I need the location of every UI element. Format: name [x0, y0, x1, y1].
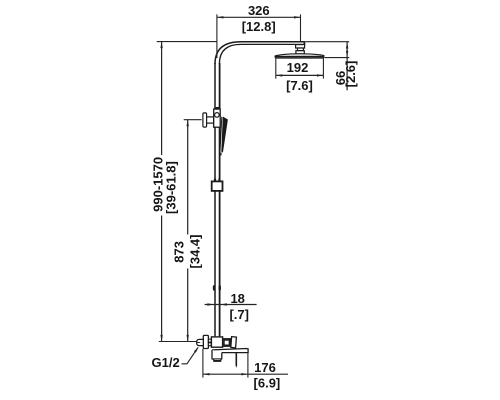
- dim 176 ext left: [202, 349, 204, 378]
- dim 873 line: [187, 120, 189, 235]
- svg-text:G1/2: G1/2: [152, 355, 180, 370]
- head connector stem: [298, 48, 304, 51]
- dim 66 line: [346, 42, 348, 91]
- dim 990-1570 arrow down: [160, 335, 162, 342]
- dim 18 arrow left: [207, 303, 214, 305]
- spout foot dark band: [214, 360, 221, 362]
- spout foot: [214, 359, 221, 361]
- head connector flange 2: [296, 51, 304, 54]
- dim 873 arrow down: [187, 335, 189, 342]
- rain shower spray face line: [276, 57, 324, 59]
- G1/2 leader arrow: [194, 347, 199, 353]
- handle stick tip: [236, 365, 238, 368]
- hand shower left outline: [220, 117, 222, 151]
- svg-text:[12.8]: [12.8]: [242, 19, 276, 34]
- svg-text:[39-61.8]: [39-61.8]: [163, 161, 178, 214]
- arm end cap: [304, 41, 306, 45]
- dim 66 ext bottom: [325, 57, 350, 59]
- riser pipe left wall: [214, 63, 216, 336]
- dim 990-1570 line: [161, 42, 163, 155]
- svg-text:176: 176: [254, 360, 276, 375]
- dim 18 arrow right: [220, 303, 227, 305]
- rain shower head bottom rim: [275, 56, 325, 58]
- pipe coupling chamfer left: [214, 179, 216, 182]
- svg-text:[34.4]: [34.4]: [187, 235, 202, 269]
- dim 990-1570 ext top: [157, 41, 217, 43]
- pipe bend inner: [219, 44, 241, 64]
- dim 326 arrow left: [217, 16, 224, 18]
- dimension 192 line: [276, 74, 324, 76]
- pipe coupling box: [212, 181, 223, 191]
- supply tab lower: [208, 343, 211, 346]
- head connector flange 1: [296, 45, 305, 48]
- dim 326 ext right: [300, 14, 302, 41]
- pipe coupling chamfer right: [218, 179, 220, 182]
- holder pin dark top: [215, 107, 219, 110]
- dimension 326 line: [217, 16, 301, 18]
- dim 192 arrow left: [276, 74, 283, 76]
- G1/2 leader: [182, 347, 199, 363]
- dim 66 arrow up: [346, 42, 348, 49]
- pipe lug right: [219, 285, 221, 290]
- cartridge housing: [223, 339, 231, 347]
- dim 176 arrow left: [203, 373, 210, 375]
- slider knob stem: [207, 117, 214, 123]
- slider knob flange: [203, 113, 207, 127]
- svg-text:[6.9]: [6.9]: [254, 375, 281, 390]
- dim 176 arrow right: [241, 373, 248, 375]
- dim 990-1570 bottom ext: [159, 341, 196, 343]
- shower arm bottom: [241, 43, 304, 45]
- hand shower tip: [220, 153, 222, 156]
- shower arm top: [241, 41, 305, 43]
- svg-text:18: 18: [230, 291, 244, 306]
- pipe bend outer: [215, 42, 241, 64]
- nipple slot line: [197, 342, 200, 344]
- rain shower head: [275, 54, 325, 56]
- spout body: [212, 350, 222, 360]
- dim 192 ext right: [322, 57, 324, 79]
- dim 176 ext right: [247, 353, 249, 377]
- svg-text:[2.6]: [2.6]: [343, 61, 358, 88]
- dim 326 arrow right: [294, 16, 301, 18]
- handle stick: [235, 353, 237, 366]
- svg-text:[.7]: [.7]: [229, 307, 249, 322]
- svg-text:192: 192: [287, 60, 309, 75]
- dim 192 arrow right: [317, 74, 324, 76]
- hand shower body: [221, 117, 228, 153]
- riser pipe right wall: [219, 63, 221, 336]
- svg-text:326: 326: [248, 3, 270, 18]
- spout bar top: [212, 349, 248, 353]
- dim 873 arrow up: [187, 120, 189, 127]
- dim 192 ext left: [275, 58, 277, 79]
- handle plate: [231, 337, 237, 348]
- svg-text:[7.6]: [7.6]: [286, 78, 313, 93]
- cartridge inner box: [224, 340, 230, 345]
- svg-text:873: 873: [172, 241, 187, 263]
- dim 990-1570 arrow up: [160, 42, 162, 49]
- dim 66 arrow down: [346, 51, 348, 58]
- dimension 176 line: [203, 373, 288, 375]
- pipe lug left: [213, 285, 215, 290]
- dimension 18 line: [205, 304, 257, 306]
- dim 326 ext left: [216, 14, 218, 58]
- G1/2 nipple: [197, 339, 204, 345]
- dim 66 ext top: [305, 41, 349, 43]
- valve main body: [211, 337, 222, 347]
- holder bracket: [214, 109, 221, 127]
- supply tab upper: [208, 339, 211, 342]
- wall escutcheon: [203, 335, 208, 348]
- holder circle: [215, 113, 220, 118]
- dim 873 ext top: [184, 119, 202, 121]
